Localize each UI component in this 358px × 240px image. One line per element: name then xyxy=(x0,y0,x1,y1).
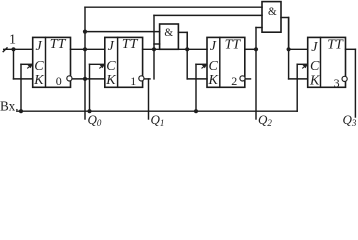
svg-text:K: K xyxy=(208,73,219,88)
svg-text:Q1: Q1 xyxy=(151,112,165,128)
svg-text:J: J xyxy=(311,40,318,55)
svg-text:&: & xyxy=(268,6,277,18)
svg-text:C: C xyxy=(209,59,219,74)
svg-text:Q2: Q2 xyxy=(258,112,272,128)
svg-text:J: J xyxy=(210,39,217,54)
svg-text:TT: TT xyxy=(225,37,242,52)
svg-text:J: J xyxy=(108,39,115,54)
svg-text:Q0: Q0 xyxy=(88,112,102,128)
svg-text:0: 0 xyxy=(56,74,62,88)
svg-text:&: & xyxy=(164,27,173,39)
svg-text:C: C xyxy=(34,59,44,74)
svg-text:K: K xyxy=(33,73,44,88)
svg-text:1: 1 xyxy=(9,32,16,47)
svg-text:K: K xyxy=(309,74,320,89)
svg-text:C: C xyxy=(106,59,116,74)
svg-text:1: 1 xyxy=(130,74,136,88)
svg-text:C: C xyxy=(310,59,320,74)
svg-text:J: J xyxy=(36,39,43,54)
svg-text:2: 2 xyxy=(231,74,237,88)
svg-text:TT: TT xyxy=(122,37,139,52)
svg-text:TT: TT xyxy=(327,38,344,53)
svg-text:K: K xyxy=(105,73,116,88)
svg-text:Вх.: Вх. xyxy=(0,98,19,113)
svg-text:TT: TT xyxy=(50,37,67,52)
svg-text:3: 3 xyxy=(334,76,340,90)
